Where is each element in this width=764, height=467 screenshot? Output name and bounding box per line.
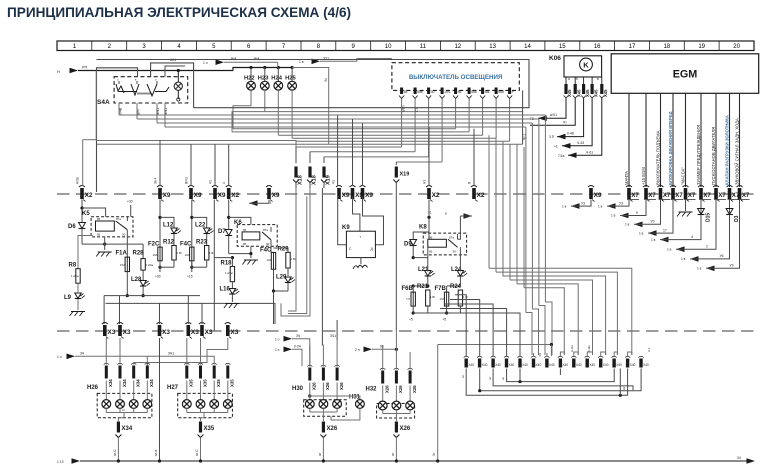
svg-text:H26: H26 [87,385,99,391]
svg-text:X9: X9 [594,192,602,199]
svg-text:S4A: S4A [97,99,110,106]
resistor R24 [450,284,463,306]
svg-text:X19: X19 [400,172,410,178]
svg-text:86: 86 [243,228,247,232]
svg-text:БЛОКИРОВКА ДВИЖЕНИЯ ВПЕРЕД: БЛОКИРОВКА ДВИЖЕНИЯ ВПЕРЕД [668,111,673,185]
svg-text:+1: +1 [554,145,558,149]
svg-text:X34: X34 [136,379,141,387]
svg-text:X7: X7 [631,193,639,199]
svg-text:1 кОм: 1 кОм [225,271,233,275]
svg-text:F1A: F1A [116,251,128,257]
svg-text:X18: X18 [298,175,304,185]
svg-text:2 п: 2 п [355,348,360,352]
svg-text:ПРИНЦИПИАЛЬНАЯ ЭЛЕКТРИЧЕСКАЯ С: ПРИНЦИПИАЛЬНАЯ ЭЛЕКТРИЧЕСКАЯ СХЕМА (4/6) [7,5,351,20]
svg-text:а/Бл: а/Бл [402,105,406,112]
svg-text:В/Ч: В/Ч [137,110,141,115]
svg-text:0-48: 0-48 [567,132,574,136]
svg-text:K8: K8 [419,225,427,231]
svg-text:1 в: 1 в [562,204,567,208]
svg-text:X40: X40 [616,363,622,367]
ground under K6 [242,260,258,265]
svg-text:X9: X9 [218,192,226,199]
LED L21 [402,247,470,321]
svg-text:X9: X9 [163,192,171,199]
relay K06 [549,55,602,81]
svg-text:РП: РП [82,66,88,70]
svg-text:в: в [445,212,447,216]
svg-text:X3: X3 [191,329,199,336]
svg-text:K5: K5 [82,211,90,217]
svg-text:X26: X26 [385,385,390,393]
fuse F1A [116,230,130,272]
svg-text:K: K [583,61,589,70]
svg-text:1 о: 1 о [57,355,62,359]
svg-text:ЗВУКОВОЙ СИГНАЛ ЗАДН. ХОДА: ЗВУКОВОЙ СИГНАЛ ЗАДН. ХОДА [734,118,739,185]
svg-text:X7: X7 [648,193,656,199]
svg-text:У9: У9 [730,264,734,268]
svg-text:11: 11 [420,44,427,50]
svg-text:10А: 10А [153,253,158,257]
svg-text:D15: D15 [706,213,712,222]
svg-text:Нт: Нт [622,386,626,390]
svg-text:12: 12 [454,44,461,50]
arrows feeding H30 [275,188,337,366]
svg-text:Н: Н [57,69,60,74]
svg-text:ПУСК/ОСТАНОВ ДВИГАТЕЛЯ: ПУСК/ОСТАНОВ ДВИГАТЕЛЯ [711,127,716,185]
X40 terminal strip [464,356,649,367]
svg-text:в: в [597,77,599,81]
svg-text:X35: X35 [204,426,215,432]
svg-text:1 в: 1 в [611,214,616,218]
svg-text:ЗЧ: ЗЧ [80,352,84,356]
svg-text:1 в: 1 в [598,204,603,208]
svg-text:зл: зл [122,408,125,412]
svg-text:ЗУММЕР ПРЕДУПРЕЖДЕНИЯ: ЗУММЕР ПРЕДУПРЕЖДЕНИЯ [696,125,701,185]
svg-text:"МАССА": "МАССА" [680,167,685,185]
left off-page arrows to lamp feeds [57,352,174,367]
lamp group H30 [292,383,346,463]
svg-text:X3: X3 [230,329,238,336]
svg-text:17: 17 [663,228,667,232]
X40 upper feeds group B [413,295,520,356]
svg-text:4: 4 [222,182,226,184]
light switch pin drop wires [402,99,510,163]
svg-text:в: в [636,211,638,215]
dashed separator row 2 [57,330,754,332]
svg-text:X18: X18 [312,175,318,185]
svg-text:+15 EGM: +15 EGM [641,167,646,185]
svg-text:K06: K06 [549,55,561,62]
bundle vertical drops [76,115,475,186]
svg-text:1 Вт: 1 Вт [177,251,183,255]
svg-text:X7: X7 [675,193,683,199]
resistor R12 [163,240,176,261]
svg-text:Зв 4: Зв 4 [154,177,158,184]
X26 pins over H30 [307,340,344,390]
svg-text:X7: X7 [703,193,711,199]
LED L28 [104,270,275,324]
resistor R28 [105,244,154,270]
svg-text:+5: +5 [409,318,413,322]
svg-text:X26: X26 [400,426,411,432]
lamp H25 [291,66,294,69]
svg-text:13: 13 [489,44,496,50]
svg-text:1 о: 1 о [275,338,280,342]
svg-text:F6B: F6B [402,286,414,292]
svg-text:7,5: 7,5 [406,297,410,301]
lamp group H32 [366,386,415,463]
mid strip pass-through verticals [281,188,310,316]
svg-text:X40: X40 [495,363,501,367]
svg-text:7/1в: 7/1в [558,154,565,158]
svg-text:56b: 56b [471,90,477,94]
svg-text:Н/Зв: Н/Зв [76,177,80,184]
svg-text:85: 85 [243,242,247,246]
svg-text:Л: Л [468,182,472,184]
svg-text:X34: X34 [122,379,127,387]
diode D3 [729,200,731,209]
svg-text:X40: X40 [643,363,649,367]
svg-text:X34: X34 [108,379,113,387]
light switch (выключатель освещения) [392,63,519,99]
lamp H23 [263,66,266,69]
svg-text:19: 19 [698,44,705,50]
svg-text:86: 86 [429,235,433,239]
svg-text:X3: X3 [107,329,115,336]
lamp H24 [277,66,280,69]
X18 X18 X19 inline connectors [293,167,409,332]
svg-text:H27: H27 [167,385,179,391]
relay K8 [404,200,472,260]
row1 connectors X2/X9 [79,186,93,202]
svg-text:зл-С: зл-С [195,449,199,456]
svg-text:R12: R12 [163,240,175,246]
svg-text:Н 1: Н 1 [647,347,651,352]
svg-text:X40: X40 [562,363,568,367]
svg-text:D3: D3 [734,215,740,222]
connectors X45 under K06 [564,77,608,98]
off-page arrow left, main bus [57,66,233,75]
svg-text:зл: зл [391,453,395,456]
svg-text:X35: X35 [230,379,235,387]
svg-text:У3: У3 [581,201,585,205]
svg-text:X7: X7 [718,193,726,199]
resistor R21 [417,284,430,306]
ground under L16 [224,304,240,309]
svg-text:X2: X2 [477,192,485,199]
svg-text:У6: У6 [720,254,724,258]
svg-text:+15: +15 [187,275,193,279]
svg-text:1 в: 1 в [639,231,644,235]
svg-text:а: а [568,77,570,81]
svg-text:зл-в: зл-в [154,450,158,456]
svg-text:X7: X7 [663,193,671,199]
svg-text:4/Ч1: 4/Ч1 [164,108,168,115]
wire X9 to F4C [180,200,215,279]
svg-text:зл: зл [461,375,465,378]
svg-text:H23: H23 [258,76,269,82]
svg-text:А-Ол: А-Ол [570,345,574,352]
svg-text:87а: 87а [263,228,268,232]
svg-text:ЗЧ1: ЗЧ1 [168,352,174,356]
svg-text:X19: X19 [326,175,332,185]
svg-text:У0: У0 [651,220,655,224]
relay K5 [80,200,133,237]
svg-text:10А: 10А [185,253,190,257]
svg-text:30: 30 [266,242,270,246]
K9 block [338,197,384,270]
svg-text:F4C: F4C [180,242,192,248]
svg-text:+5: +5 [443,318,447,322]
svg-text:X26: X26 [412,385,417,393]
wire: lamp bus to bundle [292,68,329,145]
svg-text:15А: 15А [120,263,125,267]
svg-text:а/Ч1: а/Ч1 [550,113,557,117]
svg-text:X35: X35 [216,379,221,387]
svg-text:Н1: Н1 [423,180,427,184]
svg-text:В/Ч1: В/Ч1 [185,177,189,184]
svg-text:X34: X34 [122,426,133,432]
svg-text:X40: X40 [576,363,582,367]
svg-text:1 в: 1 в [625,223,630,227]
svg-text:ЗЧ1: ЗЧ1 [330,334,336,338]
wire X9 long vertical [214,200,239,332]
svg-text:X40: X40 [589,363,595,367]
resistor R23 [196,240,209,261]
svg-text:1 кОм: 1 кОм [71,274,79,278]
arrow feeding H32 [355,345,398,353]
svg-text:X3: X3 [162,329,170,336]
svg-text:X40: X40 [536,363,542,367]
svg-text:86: 86 [97,217,101,221]
svg-text:ЗЧ: ЗЧ [296,334,300,338]
svg-text:4: 4 [691,235,693,239]
svg-text:МАЧТА: МАЧТА [624,171,629,185]
svg-text:Ч-43: Ч-43 [577,141,584,145]
svg-text:1 в: 1 в [681,257,686,261]
svg-text:X40: X40 [509,363,515,367]
svg-text:15: 15 [559,44,566,50]
svg-text:зл: зл [318,453,322,456]
svg-text:1 п: 1 п [275,348,280,352]
svg-text:F7B: F7B [435,286,447,292]
svg-text:F4C: F4C [260,248,272,254]
svg-text:R8: R8 [69,263,77,269]
switch module S4A [97,69,188,106]
svg-text:2: 2 [706,244,708,248]
feed line into X40 from left [432,343,553,463]
long vertical to bus [154,338,161,463]
svg-text:3 П: 3 П [549,135,555,139]
svg-text:ВЫКЛЮЧАТЕЛЬ ОСВЕЩЕНИЯ: ВЫКЛЮЧАТЕЛЬ ОСВЕЩЕНИЯ [409,74,503,81]
S4A wiring loops [97,58,194,192]
svg-text:58b: 58b [417,90,423,94]
LED L9 [64,293,85,310]
wire X9 to F2C [148,200,183,279]
svg-text:X2: X2 [231,192,239,199]
svg-text:L9: L9 [64,295,72,301]
svg-text:20: 20 [733,44,740,50]
svg-text:H30: H30 [292,386,304,392]
X40 upper stubs from staircase [534,352,632,357]
svg-text:зл-С: зл-С [113,449,117,456]
svg-text:X40: X40 [468,363,474,367]
svg-text:КЛАПАН РАЗГРУЗКИ ЗОЛОТНИКА: КЛАПАН РАЗГРУЗКИ ЗОЛОТНИКА [724,115,729,185]
X26 pins over H32 [380,331,417,393]
K06 exit arrows [530,98,602,158]
svg-text:X2: X2 [85,192,93,199]
row1 connectors X7 [626,186,639,202]
svg-text:зл: зл [488,377,492,380]
svg-text:бл: бл [380,345,384,349]
EGM wires to X7 [624,93,740,187]
svg-text:X9: X9 [342,192,350,199]
ground under L9 [70,312,86,317]
fuse F6B [402,286,416,306]
X34 pins [104,338,228,387]
svg-text:зл: зл [501,377,505,380]
resistor R18 [221,260,235,281]
svg-text:17: 17 [629,44,636,50]
svg-text:58L: 58L [485,90,491,94]
fuse F7B [435,286,449,306]
svg-text:15/1: 15/1 [444,90,451,94]
svg-text:X26: X26 [339,382,344,390]
svg-text:2/4В: 2/4В [119,107,123,115]
resistor R29 [278,247,291,269]
svg-text:X3: X3 [123,329,131,336]
svg-text:10А: 10А [267,258,272,262]
svg-text:1 в: 1 в [651,238,656,242]
svg-text:Чт: Чт [563,121,567,125]
svg-text:18: 18 [664,44,671,50]
svg-text:У3: У3 [619,201,623,205]
svg-text:Ч-61: Ч-61 [586,150,593,154]
svg-text:X40: X40 [482,363,488,367]
fuse F2C [148,242,162,261]
row2 crossing verticals [160,296,203,324]
svg-text:10А: 10А [440,297,445,301]
X40 lower mesh [461,345,651,397]
svg-text:1 в: 1 в [667,247,672,251]
bottom ground bus [57,456,755,464]
svg-text:4/Ч1: 4/Ч1 [156,108,160,115]
svg-text:X7: X7 [742,193,750,199]
svg-text:X40: X40 [549,363,555,367]
svg-text:1 в: 1 в [299,60,304,64]
diode D7 [218,200,277,265]
lamp group H27 [167,381,232,463]
svg-text:58: 58 [404,90,408,94]
svg-text:D6: D6 [68,224,76,230]
svg-text:34: 34 [737,456,741,460]
svg-text:16: 16 [594,44,601,50]
lamp H31 [310,395,365,421]
svg-text:X2: X2 [432,192,440,199]
svg-text:X26: X26 [327,426,338,432]
svg-text:X35: X35 [202,379,207,387]
svg-text:30: 30 [453,250,457,254]
ground under X7 [685,200,687,212]
svg-text:X34: X34 [149,379,154,387]
svg-text:X26: X26 [312,382,317,390]
dashed separator row 1 [57,193,754,195]
svg-text:X9: X9 [365,192,373,199]
svg-text:H25: H25 [285,76,296,82]
svg-text:X40: X40 [522,363,528,367]
svg-text:30: 30 [122,233,126,237]
svg-text:14: 14 [524,44,531,50]
svg-text:K9: K9 [342,225,350,231]
diode D15 [700,200,702,209]
light switch outer wire frame [97,60,530,145]
svg-text:X40: X40 [630,363,636,367]
svg-text:1 Вт: 1 Вт [430,295,436,299]
wire: lamp supply bus [203,57,523,145]
svg-text:56: 56 [458,90,462,94]
svg-text:X26: X26 [398,385,403,393]
svg-text:R21: R21 [417,284,429,290]
svg-text:H22: H22 [244,76,255,82]
svg-text:X40: X40 [603,363,609,367]
right staircase down to X40 [489,268,632,355]
svg-text:+30: +30 [127,200,133,204]
svg-text:Чт: Чт [432,452,436,456]
svg-text:H32: H32 [366,387,378,393]
svg-text:EGM: EGM [673,69,698,81]
right bundle verticals going down [489,115,545,313]
ruler scale 1-20 [57,41,754,51]
svg-text:R23: R23 [196,240,208,246]
svg-text:Ч1: Ч1 [209,180,213,184]
lamp H22 [249,66,252,69]
svg-text:ВЫКЛЮЧАТЕЛЬ ПОДЪЕМА: ВЫКЛЮЧАТЕЛЬ ПОДЪЕМА [655,130,660,185]
fuse F4C [180,242,194,261]
svg-text:1 кОм: 1 кОм [146,263,154,267]
svg-text:85: 85 [429,250,433,254]
svg-text:X9: X9 [272,192,280,199]
svg-text:R18: R18 [221,260,233,266]
svg-text:Ч1: Ч1 [332,180,336,184]
svg-text:X9: X9 [194,192,202,199]
X35 pins [147,338,234,387]
svg-text:R28: R28 [133,251,145,257]
wire bundle horizontals [83,71,546,187]
fuse F4C (second) [260,240,297,324]
svg-text:L16: L16 [220,287,231,293]
svg-text:+30: +30 [155,275,161,279]
svg-text:H24: H24 [271,76,282,82]
svg-text:0-ЗЧ: 0-ЗЧ [294,345,301,349]
svg-text:R29: R29 [278,247,290,253]
svg-text:1 в: 1 в [697,267,702,271]
row2 connectors X3 [102,323,116,339]
X7 breakout arrows [562,200,740,272]
svg-text:R24: R24 [450,284,462,290]
svg-text:А-Фк: А-Фк [587,345,591,352]
svg-text:10: 10 [385,44,392,50]
svg-text:X3: X3 [205,329,213,336]
svg-text:1 о: 1 о [203,61,208,65]
svg-text:X7: X7 [688,193,696,199]
svg-text:87а: 87а [449,235,454,239]
svg-text:58R: 58R [498,90,505,94]
svg-text:85: 85 [97,233,101,237]
svg-text:СЗ: СЗ [415,108,419,112]
svg-text:87а: 87а [116,217,121,221]
svg-text:30: 30 [431,90,435,94]
svg-text:F2C: F2C [148,242,160,248]
